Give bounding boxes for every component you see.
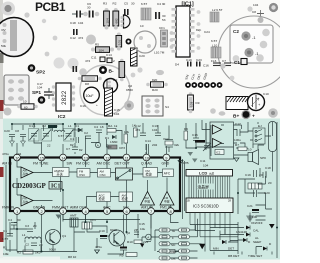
svg-text:10u: 10u [140, 227, 145, 231]
pad Q [131, 73, 136, 78]
svg-text:53: 53 [162, 18, 166, 22]
inductor FL2 [141, 2, 166, 20]
svg-text:检波: 检波 [122, 196, 129, 201]
block AGC DET [97, 192, 111, 202]
svg-text:CP3: CP3 [119, 146, 125, 150]
capacitor C6 30 [83, 2, 99, 18]
svg-text:C8: C8 [15, 129, 19, 133]
svg-text:30: 30 [131, 2, 135, 6]
svg-text:103: 103 [189, 102, 193, 107]
svg-text:C8: C8 [252, 10, 256, 14]
svg-text:101: 101 [118, 40, 122, 45]
svg-text:L1: L1 [22, 233, 26, 237]
capacitor C9 [222, 59, 231, 66]
pin 14 [60, 154, 73, 165]
svg-text:C1: C1 [234, 60, 240, 65]
svg-text:104: 104 [16, 152, 21, 156]
pin 6 [123, 206, 130, 215]
svg-text:2P: 2P [134, 228, 138, 232]
resistor R5 104 horizontal [91, 43, 114, 53]
svg-text:1N60: 1N60 [110, 140, 118, 144]
svg-text:L10.7M: L10.7M [154, 51, 165, 55]
svg-text:C20: C20 [139, 54, 145, 58]
svg-text:100u: 100u [234, 138, 241, 142]
wire net am front [74, 211, 183, 254]
svg-text:C2: C2 [42, 124, 46, 128]
svg-text:FL6: FL6 [211, 59, 217, 63]
svg-text:470u: 470u [95, 245, 102, 249]
pin 13 [76, 154, 90, 165]
trimmer C2 [41, 124, 52, 148]
ground q2 [95, 250, 100, 254]
capacitor C4b 30 [8, 218, 21, 225]
svg-text:104: 104 [203, 164, 208, 168]
coil C20 ring [134, 24, 156, 58]
svg-text:R2: R2 [113, 2, 117, 6]
mounting hole top-right [269, 3, 278, 12]
capacitor C13 104 [152, 124, 161, 136]
svg-text:S4: S4 [165, 105, 169, 109]
antenna AMT [70, 214, 78, 228]
block AM/FM switch [53, 168, 70, 177]
svg-text:5K0: 5K0 [35, 251, 41, 255]
capacitor C10b [99, 229, 107, 239]
resistor R10 223 [127, 240, 148, 244]
capacitor C7 [211, 59, 221, 66]
svg-text:10: 10 [248, 148, 252, 152]
left page edge strip [0, 0, 3, 119]
svg-text:高放: 高放 [23, 200, 29, 204]
svg-text:C4: C4 [8, 218, 12, 222]
svg-text:C4: C4 [94, 125, 98, 129]
resistor R9 [160, 250, 175, 254]
capacitor CP 2P [134, 228, 139, 235]
resistor R8 horizontal [78, 76, 102, 86]
svg-text:C14: C14 [145, 139, 151, 143]
svg-text:104: 104 [99, 49, 104, 53]
battery pad B+ [233, 110, 255, 120]
button pads row2 F [159, 235, 190, 240]
svg-text:C20: C20 [4, 129, 10, 133]
svg-text:C1: C1 [70, 137, 74, 141]
resistor R1 101 vertical [116, 33, 122, 51]
wire net xtal [126, 123, 211, 156]
wire extra mesh [6, 165, 272, 251]
svg-text:L2 6.5T: L2 6.5T [212, 8, 223, 12]
pin 5 [103, 206, 111, 215]
capacitor C16 [192, 133, 199, 141]
bottom page margin [0, 260, 280, 263]
svg-text:FM TUNE: FM TUNE [33, 162, 49, 166]
pad big pale 1 [54, 58, 65, 69]
svg-text:MIN: MIN [213, 247, 219, 251]
transistor Q4 D-shape [120, 15, 130, 28]
svg-text:14: 14 [61, 156, 66, 161]
svg-text:12: 12 [105, 156, 110, 161]
wire top rail [17, 142, 167, 154]
svg-text:1B: 1B [187, 199, 190, 203]
svg-text:SP2: SP2 [36, 70, 45, 76]
svg-text:FMR IN: FMR IN [2, 206, 15, 210]
svg-text:D8: D8 [85, 82, 89, 86]
svg-text:472: 472 [135, 128, 140, 132]
svg-text:104: 104 [37, 86, 42, 90]
svg-text:OSC: OSC [79, 173, 85, 177]
internal wires IC1 [17, 161, 171, 208]
LCD block [186, 170, 233, 177]
pin 2 [33, 206, 46, 215]
capacitor C5 30 [124, 2, 135, 15]
amplifier AM IF [141, 192, 155, 206]
capacitor C20 470u [2, 129, 15, 156]
label RB DET [228, 254, 239, 258]
svg-text:+: + [252, 115, 255, 120]
capacitor C15b label [139, 222, 145, 231]
pad E [58, 58, 62, 62]
pin 4 [70, 206, 89, 215]
transistor Q1 9018 [46, 230, 67, 252]
page edge mark red 2 [0, 167, 4, 177]
block AM DET [119, 192, 133, 202]
svg-text:LCD: LCD [199, 171, 207, 176]
resistor RA 1k [107, 124, 118, 132]
speaker pad SP1 [32, 90, 45, 104]
svg-text:472: 472 [78, 36, 83, 40]
svg-text:82: 82 [70, 143, 74, 147]
svg-text:C14: C14 [106, 53, 112, 57]
pin 12 [97, 154, 111, 165]
svg-text:ON/OFF: ON/OFF [251, 221, 263, 225]
IC1 body CD2003GP [10, 158, 180, 212]
capacitor C21 top [73, 66, 78, 72]
svg-text:C16: C16 [80, 104, 86, 108]
svg-text:C2: C2 [25, 243, 29, 247]
svg-text:VCC: VCC [123, 206, 129, 210]
pin 9 [162, 154, 170, 165]
ground amp [234, 158, 239, 162]
IC3 bottom pins [190, 213, 230, 251]
capacitor C4 [155, 12, 166, 22]
capacitor C18 [263, 166, 272, 185]
svg-text:R2: R2 [17, 251, 21, 255]
svg-text:104: 104 [114, 112, 119, 116]
svg-text:82: 82 [79, 148, 83, 152]
svg-text:C11: C11 [200, 159, 206, 163]
svg-text:13: 13 [84, 156, 89, 161]
svg-text:C16: C16 [192, 133, 198, 137]
pad H [79, 68, 87, 76]
resistor R8 10 [68, 255, 77, 259]
svg-text:682: 682 [115, 18, 119, 23]
tuning capacitor block [230, 25, 273, 63]
svg-text:SPK: SPK [260, 156, 267, 160]
label ON/OFF [246, 221, 263, 230]
capacitor C3 20 [25, 224, 37, 232]
pad N [268, 108, 278, 118]
capacitor C12 472 [70, 29, 83, 40]
capacitor C10 electrolytic [248, 92, 269, 111]
svg-text:C10: C10 [99, 229, 105, 233]
svg-text:PCB1: PCB1 [35, 0, 66, 14]
svg-text:AMM OUT: AMM OUT [70, 206, 87, 210]
svg-text:GND IN: GND IN [33, 206, 46, 210]
svg-text:820: 820 [152, 78, 157, 82]
pin 10 [141, 154, 153, 165]
svg-text:9018: 9018 [110, 228, 117, 232]
svg-text:16: 16 [15, 156, 20, 161]
oval pad P [219, 111, 226, 115]
svg-text:FMM OUT: FMM OUT [52, 206, 69, 210]
svg-text:9550: 9550 [126, 88, 133, 92]
svg-text:L3: L3 [54, 124, 58, 128]
filter CF1b [82, 218, 96, 229]
svg-text:C7: C7 [66, 147, 70, 151]
pad big pale 2 [68, 58, 79, 69]
pad ring S [126, 39, 132, 45]
svg-text:FM OSC: FM OSC [76, 162, 90, 166]
pad K column [170, 31, 174, 49]
svg-text:SEEP: SEEP [253, 240, 261, 244]
resistor R1b 10E [3, 246, 9, 257]
crystal X1 hatched [226, 97, 248, 110]
svg-text:中放: 中放 [145, 200, 151, 204]
svg-text:1k: 1k [114, 124, 118, 128]
svg-text:GND: GND [162, 162, 170, 166]
capacitor C19 [186, 58, 192, 67]
svg-text:1N4148: 1N4148 [236, 230, 247, 234]
svg-text:17B: 17B [183, 161, 189, 165]
block AM OSC [98, 169, 111, 178]
big pad ring middle [80, 65, 130, 115]
ground X2 [188, 140, 209, 168]
svg-text:C19: C19 [245, 173, 251, 177]
ground mid [140, 244, 144, 248]
capacitor C20b [254, 190, 270, 197]
svg-text:20: 20 [268, 181, 272, 185]
trimmer C3 [64, 129, 75, 142]
node A mid [95, 142, 100, 147]
button pads row4 CLK [159, 249, 190, 254]
svg-text:Ta: Ta [172, 229, 176, 233]
connector hatched right [131, 48, 138, 66]
pad J [137, 67, 142, 72]
svg-text:R7: R7 [235, 143, 239, 147]
svg-text:R20: R20 [152, 88, 158, 92]
connector hatched mid [105, 88, 120, 116]
crystal X3 [248, 183, 262, 189]
capacitor C18 [70, 11, 85, 26]
svg-text:R3: R3 [103, 2, 107, 6]
pad I [124, 101, 134, 111]
svg-text:+: + [96, 103, 98, 107]
wire vertical right outer [183, 122, 278, 258]
pad O [210, 108, 216, 114]
ground pin9 [178, 161, 189, 166]
capacitor CE black [48, 125, 57, 131]
svg-text:202: 202 [152, 143, 157, 147]
svg-text:示屏: 示屏 [209, 171, 215, 175]
svg-text:R8 10: R8 10 [68, 255, 77, 259]
svg-text:Ph: Ph [172, 257, 176, 261]
svg-text:30: 30 [87, 6, 91, 10]
svg-text:C1: C1 [3, 229, 7, 233]
svg-text:Q1: Q1 [62, 234, 66, 238]
svg-text:检波: 检波 [99, 196, 106, 201]
resistor R7 10 [235, 143, 252, 152]
svg-text:高放: 高放 [23, 172, 29, 176]
svg-text:10E: 10E [3, 252, 9, 256]
svg-text:CF1: CF1 [90, 218, 96, 222]
capacitor C7 82 [66, 147, 83, 152]
svg-text:C12: C12 [70, 36, 76, 40]
svg-text:2.2: 2.2 [113, 78, 118, 82]
svg-text:检波: 检波 [146, 172, 153, 177]
capacitor C1 82 [70, 137, 79, 147]
ground pin2 [56, 215, 62, 220]
svg-text:C19: C19 [186, 58, 192, 62]
speaker pad SP2 [28, 64, 46, 75]
svg-text:6.5T: 6.5T [211, 39, 217, 43]
svg-text:液晶屏: 液晶屏 [198, 184, 210, 189]
LCD pin bus [189, 176, 230, 198]
resistor R6 [184, 127, 188, 140]
IC2 amplifier block schematic [210, 122, 234, 159]
resistor R2 682 [113, 2, 119, 30]
amplifier FM IF [160, 192, 174, 206]
svg-text:IC3 SC3610D: IC3 SC3610D [193, 204, 219, 209]
svg-text:IC1: IC1 [51, 184, 60, 190]
svg-text:SW: SW [67, 162, 73, 166]
ground right [269, 224, 275, 229]
svg-text:C18: C18 [70, 21, 76, 25]
switch S4 block [142, 63, 209, 117]
button pads row1 Ta [159, 228, 190, 233]
capacitor C23 [196, 58, 202, 67]
label CAL [246, 229, 259, 237]
svg-text:F: F [172, 236, 174, 240]
IC2 amplifier 2822 [52, 83, 75, 120]
svg-text:DET: DET [228, 247, 234, 251]
pad C [53, 36, 58, 41]
svg-text:30: 30 [17, 218, 21, 222]
capacitor C16 10uF [80, 87, 99, 108]
svg-text:6.5T: 6.5T [2, 237, 8, 241]
svg-text:2: 2 [113, 59, 115, 63]
speaker SPK [248, 150, 267, 165]
wire net buttons [142, 219, 202, 258]
svg-text:104: 104 [152, 128, 157, 132]
svg-text:15: 15 [40, 156, 45, 161]
capacitor C14 202 [145, 139, 157, 150]
pin 1 [2, 206, 20, 215]
svg-text:10: 10 [140, 24, 144, 28]
block FM DET [143, 168, 158, 178]
wire mid rail 1 [63, 215, 179, 233]
svg-text:9018: 9018 [49, 248, 56, 252]
programming pads P1-P6 [184, 72, 222, 88]
jumper CP3 [108, 145, 125, 150]
diode D2 1N60 [105, 135, 118, 144]
block FM OSC [77, 169, 90, 178]
mixer switch [116, 168, 133, 180]
potentiometer RV 50k [0, 18, 34, 57]
svg-text:470u: 470u [2, 152, 9, 156]
svg-text:CLK: CLK [171, 250, 178, 254]
svg-text:10: 10 [145, 156, 150, 161]
button pads row5 Ph [159, 256, 190, 261]
capacitor C21 10u [247, 204, 259, 219]
label TIME SET [248, 254, 262, 258]
svg-text:20: 20 [259, 173, 263, 177]
svg-text:C3: C3 [25, 224, 29, 228]
pin 3 [52, 206, 69, 215]
speaker connector block [4, 75, 29, 105]
svg-text:中放: 中放 [164, 200, 170, 204]
pad A [24, 12, 29, 17]
oval pad M [156, 70, 164, 75]
resistor RB 10k [124, 130, 129, 143]
svg-text:104: 104 [78, 21, 83, 25]
svg-text:AMT: AMT [70, 214, 77, 218]
inductor L2 [210, 8, 223, 22]
diode D3 1N4148 [236, 230, 251, 244]
svg-text:IC2: IC2 [216, 151, 221, 155]
svg-text:D1: D1 [105, 136, 109, 140]
page edge mark red 1 [0, 100, 4, 111]
capacitor C14 [106, 53, 115, 63]
page edge mark red 3 [0, 232, 4, 242]
svg-text:C15: C15 [139, 222, 145, 226]
wire net amp [197, 120, 273, 155]
svg-text:472: 472 [85, 59, 90, 63]
capacitor C19b [245, 170, 263, 177]
wire amp-jack [221, 125, 264, 149]
svg-text:TIME SET: TIME SET [248, 254, 262, 258]
svg-text:C24: C24 [204, 30, 210, 34]
svg-text:C17: C17 [235, 122, 241, 126]
wire net top-left [12, 124, 63, 147]
jumper C1 [234, 59, 247, 66]
wire net osc [75, 124, 122, 154]
svg-text:CF1: CF1 [159, 26, 165, 30]
svg-text:C23: C23 [196, 58, 202, 62]
ground big grey [246, 216, 254, 223]
capacitor C2c 20 [25, 243, 43, 248]
svg-text:C18: C18 [265, 166, 271, 170]
IC3 SC3610D [186, 198, 233, 213]
label MIN DET [213, 247, 234, 251]
svg-text:OSC: OSC [100, 173, 106, 177]
pad T [220, 63, 225, 68]
svg-text:B-: B- [109, 69, 114, 75]
pad F big [86, 35, 96, 45]
inductor L3 [54, 124, 65, 138]
pin 8 [160, 206, 174, 215]
svg-text:18: 18 [100, 125, 104, 129]
capacitor C2b [84, 131, 91, 139]
page edge mark dark [0, 53, 4, 63]
transistor Q3 [104, 78, 118, 93]
tuning gang circle [218, 16, 290, 88]
svg-text:10uF: 10uF [86, 94, 94, 98]
pin 16 [2, 154, 20, 165]
capacitor C12 472 [135, 124, 146, 136]
PCB board background [0, 0, 280, 119]
amplifier AM RF [21, 167, 33, 178]
svg-text:10k: 10k [124, 130, 129, 134]
svg-text:AM IN: AM IN [2, 162, 12, 166]
pin 11 [115, 154, 131, 165]
